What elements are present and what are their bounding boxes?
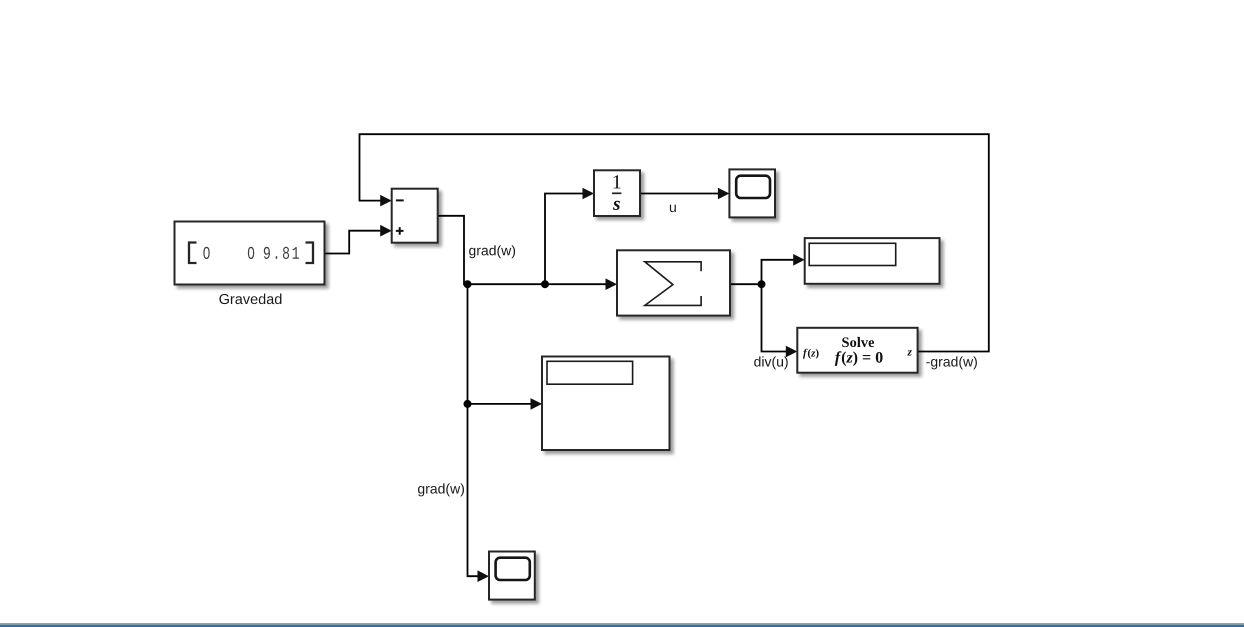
wire: branch up from node J2 to Integrator input xyxy=(545,194,584,285)
label Gravedad xyxy=(219,294,281,305)
display block Display2 xyxy=(542,357,670,451)
display readout field xyxy=(809,243,896,265)
wire: Integrator output to Scope1 input xyxy=(640,193,719,195)
scope screen icon xyxy=(736,176,770,198)
wire: Sum output down then right along main grad(w) bus to Sigma input xyxy=(438,216,607,284)
pin label z xyxy=(907,350,912,355)
net label grad(w) lower xyxy=(418,483,464,496)
arrowhead into Display1 input xyxy=(793,254,805,266)
scope block Scope1 xyxy=(729,169,775,217)
plus sign xyxy=(396,227,404,235)
scope block Scope2 xyxy=(489,552,535,600)
arrowhead into Scope1 input xyxy=(718,188,730,200)
numerator 1 xyxy=(614,175,621,188)
wire: branch down from node J1 to node J3 then right to Display2 input xyxy=(468,284,532,404)
value bracket right xyxy=(306,243,314,264)
arrowhead into Solve input xyxy=(786,346,798,358)
net label u xyxy=(670,205,676,213)
fraction bar xyxy=(612,192,621,194)
wire: node J4 down to Solve f(z) input xyxy=(762,284,787,351)
arrowhead into Scope2 input xyxy=(478,570,490,582)
sum block (Add: - +) xyxy=(392,189,438,243)
sigma block (Sum of Elements) xyxy=(617,250,730,315)
equation f(z)=0 xyxy=(835,351,883,366)
bottom blue status bar xyxy=(0,625,1244,627)
integrator block 1/s xyxy=(594,170,640,216)
sigma symbol xyxy=(645,262,701,306)
node J3 junction dot xyxy=(464,400,472,408)
algebraic constraint block Solve f(z)=0 xyxy=(797,328,917,373)
wire: Sigma output to node J4 xyxy=(730,283,762,285)
node J2 junction dot xyxy=(541,280,549,288)
net label div(u) xyxy=(754,356,788,369)
bottom gray divider xyxy=(0,623,1244,625)
wire: branch down from node J3 to Scope2 input xyxy=(468,404,479,576)
arrowhead into Display2 input xyxy=(531,398,543,410)
wire: node J4 up to Display1 input xyxy=(762,260,795,284)
display readout field xyxy=(547,361,633,384)
display block Display1 xyxy=(805,238,940,284)
constant block Gravedad [0 0 9.81] xyxy=(175,222,325,285)
title Solve xyxy=(842,337,874,347)
minus sign xyxy=(396,199,404,201)
wire: feedback from Solve output around top to Sum minus input xyxy=(360,134,989,351)
node J1 junction dot xyxy=(464,280,472,288)
value digits 0 0 9.81 xyxy=(203,247,299,259)
net label -grad(w) xyxy=(926,356,977,369)
pin label f(z) xyxy=(803,349,819,359)
net label grad(w) upper xyxy=(469,245,515,258)
wire: Gravedad constant to Sum plus input xyxy=(325,231,382,254)
node J4 junction dot xyxy=(758,280,766,288)
scope screen icon xyxy=(496,558,530,580)
arrowhead into Sum minus input xyxy=(380,195,392,207)
denominator s xyxy=(613,201,620,210)
value bracket left xyxy=(189,243,197,264)
arrowhead into Sigma input xyxy=(606,278,618,290)
arrowhead into Sum plus input xyxy=(380,225,392,237)
arrowhead into Integrator input xyxy=(583,188,595,200)
